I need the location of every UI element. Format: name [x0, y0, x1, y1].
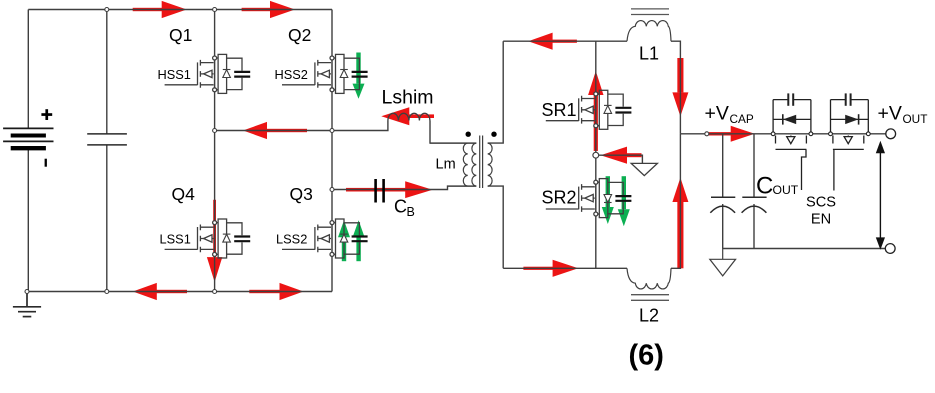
measurement arrow output voltage [877, 143, 884, 248]
capacitor COUT unit 1 [710, 197, 735, 213]
red arrow output rail upper (downward) [677, 58, 683, 92]
svg-text:C: C [756, 173, 773, 200]
SCS device 1 channel and gate [776, 136, 807, 191]
wire COUT cap1 leads [722, 134, 724, 249]
SCS switch device 1 [773, 93, 811, 131]
wire L2 right lead up output rail lower [671, 134, 680, 268]
wire Q2-Q3 leg [331, 10, 333, 292]
red arrow top rail segment 2 [242, 8, 272, 11]
junction node top rail at Q1 [213, 8, 217, 12]
junction node CB row at Q3 leg [330, 188, 334, 192]
wire battery branch lower [27, 149, 29, 292]
wire output return row [723, 248, 886, 250]
transistor Q2 (HSS2) [282, 54, 368, 93]
svg-text:HSS2: HSS2 [275, 67, 308, 82]
red arrow secondary bottom rail (rightward) [523, 267, 553, 270]
transformer secondary winding [488, 143, 492, 186]
inductor L1 core lines [631, 9, 669, 15]
svg-text:LSS1: LSS1 [160, 232, 191, 247]
green arrow SR2 diode (downward) [606, 176, 610, 207]
svg-text:Lm: Lm [436, 156, 456, 172]
junction node mid row at Q1 leg [213, 129, 217, 133]
svg-text:CAP: CAP [730, 112, 754, 126]
SCS device 2 body diode (points right) [845, 114, 858, 124]
green arrow Q3 cap (upward) [356, 237, 360, 261]
svg-text:Q3: Q3 [290, 184, 313, 204]
junction node SR mid [593, 152, 599, 158]
red arrow top rail segment 1 [133, 8, 163, 11]
wire bridge mid row to Lshim [215, 121, 388, 131]
SCS device 1 body diode (points left) [783, 114, 796, 124]
svg-text:SR1: SR1 [542, 100, 577, 120]
output terminal return [885, 244, 895, 254]
wire CB row [332, 186, 476, 189]
wire secondary bottom rail [503, 267, 627, 269]
svg-text:SCS: SCS [806, 195, 836, 211]
transistor Q1 (HSS1) [165, 54, 251, 93]
wire L1 right lead down output rail upper [671, 41, 680, 134]
red arrow output rail lower (upward) [677, 202, 683, 268]
wire top input rail [28, 9, 332, 11]
SCS switch device 2 [831, 93, 869, 131]
wire VCAP node row to SCS and output [680, 133, 885, 135]
junction node mid row at Q2 leg [330, 129, 334, 133]
transistor Q4 (LSS1) [165, 219, 251, 258]
junction node bottom rail at Cin [105, 290, 109, 294]
svg-text:Q1: Q1 [169, 25, 192, 45]
battery plus label [41, 109, 52, 120]
svg-text:EN: EN [811, 212, 831, 228]
red arrow bottom rail (rightward) [249, 290, 280, 293]
svg-text:(6): (6) [629, 340, 664, 372]
svg-text:Lshim: Lshim [382, 87, 434, 109]
transistor SR2 (body diode flipped) [546, 179, 632, 218]
capacitor COUT unit 2 [742, 197, 767, 213]
red arrow CB row (rightward) [346, 188, 406, 192]
junction node VCAP [705, 132, 709, 136]
transformer core [480, 136, 483, 189]
transformer secondary dot [491, 132, 496, 137]
ground COUT (chassis triangle) [710, 249, 736, 276]
SCS device 2 channel and gate [833, 136, 864, 191]
svg-text:OUT: OUT [773, 183, 799, 197]
svg-text:L1: L1 [639, 44, 659, 64]
battery V_in [3, 128, 53, 148]
inductor L2 core lines [631, 295, 669, 301]
red arrow SR1 leg (upward) [594, 94, 598, 151]
inductor L1 coil [627, 21, 671, 42]
SCS terminal nodes [771, 132, 870, 136]
svg-text:L2: L2 [639, 306, 659, 326]
red arrow secondary top rail (leftward) [552, 40, 577, 43]
svg-text:+V: +V [878, 103, 902, 125]
svg-text:OUT: OUT [903, 112, 928, 126]
svg-text:B: B [407, 205, 415, 219]
capacitor input bulk cap [87, 134, 127, 145]
junction node bottom rail at ground [25, 290, 29, 294]
junction node bottom rail at Q4 [213, 290, 217, 294]
inductor L2 coil [627, 268, 671, 289]
wire SR mid node to ground [596, 155, 643, 163]
wire secondary bottom lead and riser [488, 186, 504, 268]
battery minus label [45, 159, 47, 167]
green arrow Q3 diode (upward) [342, 237, 346, 261]
svg-text:HSS1: HSS1 [158, 67, 191, 82]
red arrow bottom rail (leftward) [156, 290, 187, 293]
svg-text:Q2: Q2 [288, 25, 311, 45]
red arrow bridge mid row (leftward) [266, 129, 307, 132]
wire COUT cap2 leads [753, 134, 755, 249]
red arrow Lshim (leftward) [408, 114, 434, 118]
capacitor CB blocking cap [376, 179, 384, 203]
green arrow SR2 cap (downward) [622, 176, 626, 209]
svg-text:LSS2: LSS2 [276, 232, 307, 247]
junction node top rail at Cin [105, 8, 109, 12]
wire secondary top lead and riser [488, 41, 504, 143]
green arrow Q2 cap (downward) [356, 53, 360, 84]
transformer primary winding [430, 143, 476, 186]
wire Q1-Q4 leg [214, 10, 216, 292]
ground SR mid node (chassis triangle) [631, 163, 657, 175]
wire input cap branch lower [106, 145, 108, 292]
transistor Q3 (LSS2) [282, 219, 368, 258]
svg-text:Q4: Q4 [172, 184, 196, 204]
red arrow Q4 leg (downward) [213, 200, 216, 257]
red arrow SR mid node (leftward) [625, 153, 642, 157]
wire battery branch upper [27, 10, 29, 129]
svg-text:+V: +V [705, 103, 729, 125]
wire bottom input rail [27, 291, 332, 293]
svg-text:SR2: SR2 [542, 188, 577, 208]
wire secondary top rail [503, 40, 627, 42]
wire input cap branch upper [106, 10, 108, 134]
red arrow VCAP row (rightward) [709, 132, 731, 135]
inductor Lshim coil [388, 113, 430, 120]
transistor SR1 [546, 90, 632, 129]
wire SR leg [595, 41, 597, 268]
ground input (earth) [13, 292, 41, 317]
output terminal +VOUT [886, 129, 896, 139]
transformer primary dot [466, 132, 471, 137]
svg-text:C: C [394, 197, 407, 217]
wire Lshim to primary top [430, 121, 476, 144]
